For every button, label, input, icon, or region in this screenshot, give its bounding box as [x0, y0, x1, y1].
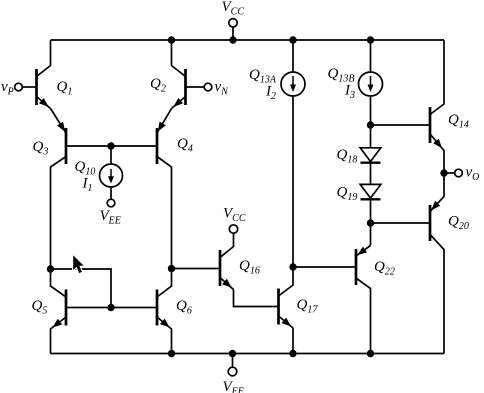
current source Q13A/I2 — [281, 72, 305, 96]
wire: Q16 base — [172, 268, 221, 270]
node dot: Q3 collector / mirror node — [47, 265, 54, 272]
node dot: Q20 base node — [367, 219, 374, 226]
label v_O — [466, 165, 480, 184]
wire: VEE bottom rail — [51, 353, 445, 355]
label I1 — [82, 176, 93, 195]
wire: Q18 to Q19 — [370, 163, 372, 185]
label Q10 — [75, 159, 96, 178]
wire: vO stub — [444, 172, 455, 174]
label Q22 — [374, 259, 395, 278]
node dot: Q5/Q6 base tie — [107, 304, 114, 311]
label Q20 — [448, 214, 469, 233]
transistor Q6 (NPN mirror) — [111, 269, 172, 354]
node dot: I2 on VCC rail — [289, 36, 296, 43]
label I2 — [265, 84, 276, 103]
transistor Q3 (PNP) — [51, 109, 112, 270]
label Q1 — [57, 79, 73, 98]
transistor Q17 (NPN) — [279, 267, 294, 354]
input terminal vP — [15, 83, 23, 91]
node dot: Q22 collector on VEE rail — [367, 350, 374, 357]
label Q19 — [337, 185, 358, 204]
node dot: Q6 emitter on VEE rail — [168, 350, 175, 357]
wire: I2 to second-stage node — [292, 96, 294, 268]
mouse cursor artifact — [73, 255, 83, 273]
label Q16 — [239, 258, 260, 277]
power terminal V_CC (Q16 collector) — [229, 225, 237, 233]
label V_EE (bottom) — [223, 379, 244, 393]
transistor Q2 (NPN input) — [172, 40, 205, 109]
label Q3 — [33, 139, 49, 158]
label Q14 — [448, 112, 469, 131]
label V_CC (middle) — [223, 206, 246, 225]
power terminal V_EE (under I1) — [107, 199, 115, 207]
wire: Q19 to Q20 base node — [370, 199, 372, 223]
wire: Q14 base — [371, 124, 431, 126]
label Q2 — [150, 76, 166, 95]
current source Q10/I1 — [100, 146, 123, 199]
output terminal vO — [455, 169, 463, 177]
transistor Q16 (NPN) — [220, 233, 279, 307]
node dot: I3 on VCC rail — [367, 36, 374, 43]
transistor Q1 (NPN input) — [23, 40, 51, 109]
label v_P — [1, 79, 14, 98]
node dot: Q17 collector / Q22 base — [289, 263, 296, 270]
wire: mirror node to Q5/Q6 bases — [51, 269, 112, 308]
label Q5 — [32, 298, 48, 317]
diode Q18 — [360, 148, 381, 163]
transistor Q5 (NPN mirror) — [51, 269, 112, 354]
node dot: Q2 collector on VCC rail — [168, 36, 175, 43]
label v_N — [215, 79, 230, 98]
power terminal V_CC (top) — [229, 19, 237, 40]
transistor Q14 (NPN output) — [430, 40, 444, 173]
node dot: Q3/Q4 base node — [107, 142, 114, 149]
label V_EE (under I1) — [100, 208, 121, 227]
wire: Q14 base node to Q18 — [370, 125, 372, 148]
label I3 — [344, 83, 355, 102]
node dot: output node vO — [440, 169, 447, 176]
label Q17 — [297, 297, 319, 316]
label V_CC (top) — [222, 0, 245, 18]
node dot: VEE terminal on rail — [229, 350, 236, 357]
label Q6 — [176, 298, 192, 317]
input terminal vN — [204, 83, 212, 91]
wire: Q22 emitter from Q20 base node — [370, 223, 372, 246]
diode Q19 — [360, 184, 381, 199]
label Q4 — [177, 136, 193, 155]
node dot: Q14 base node — [367, 121, 374, 128]
wire: VCC rail to I3 — [370, 40, 372, 73]
wire: VCC rail to I2 — [292, 40, 294, 73]
power terminal V_EE (bottom) — [228, 354, 237, 376]
current source Q13B/I3 — [359, 72, 383, 96]
transistor Q4 (PNP) — [111, 109, 172, 269]
node dot: Q17 emitter on VEE rail — [289, 350, 296, 357]
transistor Q22 (PNP) — [293, 246, 371, 354]
wire: VCC top rail — [51, 39, 445, 41]
label Q13B — [328, 66, 355, 85]
label Q18 — [337, 147, 358, 166]
node dot: VCC terminal on rail — [229, 36, 236, 43]
transistor Q20 (PNP output) — [430, 173, 444, 354]
node dot: second stage input node — [168, 265, 175, 272]
wire: I3 to Q14 base node — [370, 96, 372, 126]
label Q13A — [249, 67, 277, 86]
wire: Q20 base — [371, 222, 431, 224]
